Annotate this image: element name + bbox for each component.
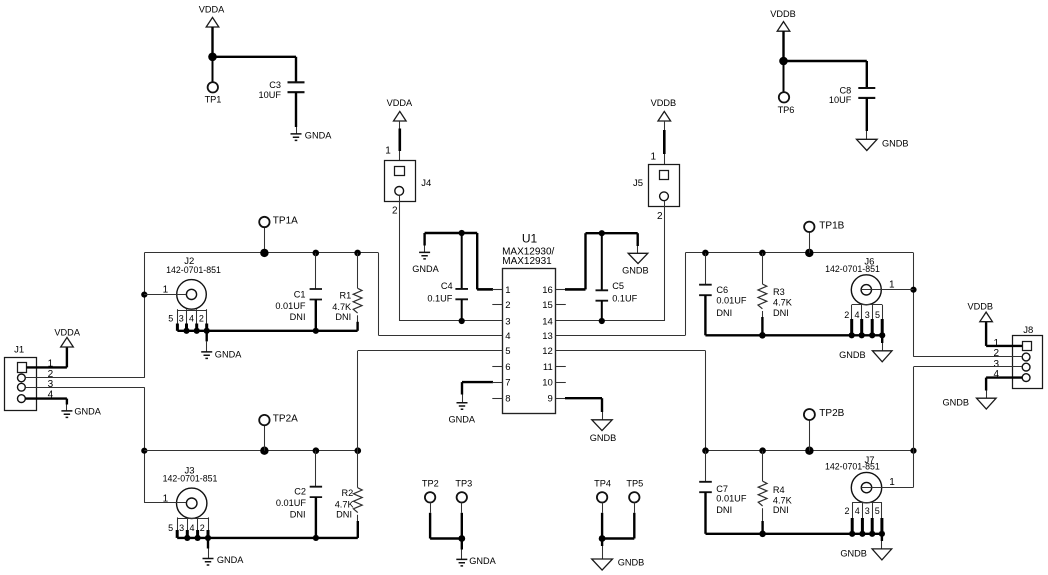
- svg-text:142-0701-851: 142-0701-851: [825, 264, 880, 274]
- svg-text:2: 2: [844, 310, 849, 320]
- svg-text:4: 4: [855, 506, 860, 516]
- svg-text:R2: R2: [342, 488, 354, 498]
- svg-text:TP5: TP5: [626, 479, 643, 489]
- svg-text:1: 1: [889, 477, 895, 488]
- svg-text:GNDA: GNDA: [305, 130, 332, 140]
- svg-text:TP2: TP2: [422, 479, 439, 489]
- svg-text:TP6: TP6: [778, 105, 795, 115]
- svg-text:DNI: DNI: [336, 509, 352, 519]
- svg-text:2: 2: [657, 211, 663, 222]
- svg-text:14: 14: [542, 316, 553, 327]
- svg-text:TP3: TP3: [455, 479, 472, 489]
- svg-text:TP2A: TP2A: [273, 414, 298, 425]
- svg-text:4.7K: 4.7K: [773, 495, 793, 505]
- svg-text:DNI: DNI: [290, 312, 306, 322]
- svg-text:GNDA: GNDA: [412, 264, 439, 274]
- svg-text:J5: J5: [633, 178, 643, 189]
- svg-text:13: 13: [542, 331, 553, 342]
- svg-text:DNI: DNI: [773, 308, 789, 318]
- svg-text:3: 3: [48, 379, 54, 390]
- svg-text:5: 5: [505, 346, 510, 357]
- svg-text:1: 1: [163, 285, 169, 296]
- svg-text:10: 10: [542, 378, 553, 389]
- svg-text:R4: R4: [773, 485, 785, 495]
- svg-text:1: 1: [650, 151, 656, 162]
- svg-text:VDDA: VDDA: [387, 98, 413, 108]
- svg-text:4: 4: [189, 313, 194, 323]
- svg-text:10UF: 10UF: [259, 90, 282, 100]
- svg-text:TP4: TP4: [594, 479, 611, 489]
- svg-text:2: 2: [200, 523, 205, 533]
- svg-text:C7: C7: [716, 484, 728, 494]
- svg-text:GNDB: GNDB: [942, 397, 969, 407]
- svg-text:10UF: 10UF: [829, 95, 852, 105]
- svg-text:1: 1: [163, 494, 169, 505]
- svg-text:TP1A: TP1A: [273, 216, 298, 227]
- svg-text:GNDA: GNDA: [469, 556, 496, 566]
- svg-text:1: 1: [889, 280, 895, 291]
- svg-text:DNI: DNI: [716, 505, 732, 515]
- svg-text:GNDA: GNDA: [74, 406, 101, 416]
- svg-text:2: 2: [505, 300, 510, 311]
- svg-text:5: 5: [875, 310, 880, 320]
- svg-text:12: 12: [542, 346, 553, 357]
- svg-text:4.7K: 4.7K: [332, 302, 352, 312]
- svg-text:2: 2: [392, 206, 398, 217]
- svg-text:J8: J8: [1023, 325, 1033, 336]
- svg-text:GNDB: GNDB: [839, 350, 866, 360]
- svg-text:2: 2: [199, 313, 204, 323]
- svg-text:DNI: DNI: [773, 505, 789, 515]
- svg-text:J4: J4: [421, 178, 431, 189]
- svg-text:DNI: DNI: [290, 509, 306, 519]
- svg-text:MAX12931: MAX12931: [502, 256, 552, 267]
- svg-text:GNDB: GNDB: [840, 548, 867, 558]
- svg-text:J1: J1: [14, 345, 24, 356]
- svg-text:VDDB: VDDB: [968, 301, 994, 311]
- svg-text:9: 9: [548, 394, 553, 405]
- svg-text:0.01UF: 0.01UF: [276, 498, 307, 508]
- svg-text:2: 2: [993, 348, 999, 359]
- svg-text:4.7K: 4.7K: [335, 500, 355, 510]
- svg-text:VDDB: VDDB: [651, 98, 677, 108]
- svg-text:3: 3: [179, 523, 184, 533]
- svg-text:VDDA: VDDA: [54, 327, 80, 337]
- svg-text:DNI: DNI: [335, 312, 351, 322]
- svg-text:0.01UF: 0.01UF: [716, 494, 747, 504]
- svg-text:2: 2: [844, 506, 849, 516]
- svg-text:0.01UF: 0.01UF: [716, 295, 747, 305]
- svg-text:3: 3: [505, 316, 510, 327]
- svg-text:0.01UF: 0.01UF: [275, 301, 306, 311]
- svg-text:GNDA: GNDA: [217, 555, 244, 565]
- svg-text:5: 5: [168, 523, 173, 533]
- svg-text:16: 16: [542, 285, 553, 296]
- svg-text:TP2B: TP2B: [819, 408, 844, 419]
- svg-text:0.1UF: 0.1UF: [427, 293, 452, 303]
- svg-text:C6: C6: [716, 285, 728, 295]
- svg-text:4.7K: 4.7K: [773, 298, 793, 308]
- svg-text:3: 3: [865, 310, 870, 320]
- svg-text:C5: C5: [612, 281, 624, 291]
- svg-text:VDDB: VDDB: [770, 9, 796, 19]
- svg-text:4: 4: [505, 331, 510, 342]
- svg-text:C1: C1: [294, 290, 306, 300]
- svg-text:3: 3: [179, 313, 184, 323]
- svg-text:4: 4: [854, 310, 859, 320]
- svg-text:R3: R3: [773, 287, 785, 297]
- svg-text:GNDB: GNDB: [618, 557, 645, 567]
- svg-text:DNI: DNI: [716, 308, 732, 318]
- svg-text:GNDA: GNDA: [449, 414, 476, 424]
- svg-text:U1: U1: [522, 232, 538, 246]
- svg-text:C4: C4: [441, 281, 453, 291]
- svg-text:8: 8: [505, 394, 510, 405]
- svg-text:GNDB: GNDB: [622, 265, 649, 275]
- svg-text:7: 7: [505, 378, 510, 389]
- svg-text:3: 3: [865, 506, 870, 516]
- svg-text:142-0701-851: 142-0701-851: [825, 461, 880, 471]
- svg-text:142-0701-851: 142-0701-851: [163, 473, 218, 483]
- svg-text:6: 6: [505, 362, 510, 373]
- svg-text:GNDB: GNDB: [590, 433, 617, 443]
- svg-text:VDDA: VDDA: [199, 5, 225, 15]
- svg-text:5: 5: [168, 313, 173, 323]
- svg-text:1: 1: [385, 145, 391, 156]
- svg-text:5: 5: [875, 506, 880, 516]
- svg-text:C8: C8: [839, 86, 851, 96]
- svg-text:C3: C3: [269, 80, 281, 90]
- svg-text:4: 4: [189, 523, 194, 533]
- svg-text:0.1UF: 0.1UF: [612, 293, 637, 303]
- svg-text:GNDB: GNDB: [882, 138, 909, 148]
- svg-text:R1: R1: [339, 291, 351, 301]
- svg-text:1: 1: [505, 285, 510, 296]
- svg-text:142-0701-851: 142-0701-851: [166, 265, 221, 275]
- svg-text:C2: C2: [294, 486, 306, 496]
- svg-text:11: 11: [543, 362, 553, 373]
- svg-text:TP1B: TP1B: [819, 220, 844, 231]
- svg-text:GNDA: GNDA: [215, 349, 242, 359]
- svg-text:15: 15: [542, 300, 553, 311]
- svg-text:TP1: TP1: [205, 95, 222, 105]
